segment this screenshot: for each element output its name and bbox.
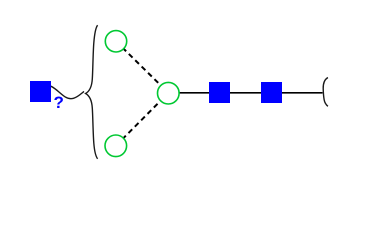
GlcNAc square: uncertain antenna (left): [30, 81, 51, 102]
GlcNAc square: chain reducing side: [261, 82, 282, 103]
mannose circle: top antenna: [105, 31, 126, 52]
reducing-end squiggle marker: [323, 78, 328, 107]
mannose circle: bottom antenna: [105, 135, 127, 157]
wavy wire: uncertain antenna GlcNAc to bracket: [51, 86, 84, 99]
bracket: curly brace: [86, 25, 98, 159]
dashed linkage wire: bottom mannose to core mannose: [116, 93, 169, 146]
dashed linkage wire: top mannose to core mannose: [116, 41, 168, 93]
svg-text:?: ?: [54, 93, 64, 112]
mannose circle: core: [158, 82, 180, 104]
GlcNAc square: chain inner: [209, 82, 230, 103]
solid linkage wire: core mannose to reducing end: [168, 92, 322, 94]
